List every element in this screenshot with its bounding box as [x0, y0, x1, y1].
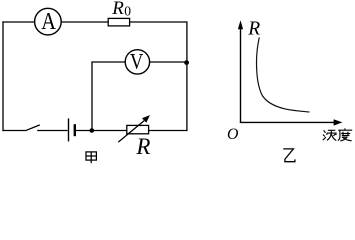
- resistor R0 body: [108, 18, 129, 26]
- voltmeter V: [125, 50, 149, 74]
- label jia (甲): [86, 152, 96, 163]
- wire top: left edge to ammeter: [2, 21, 34, 23]
- graph y-axis: [238, 20, 243, 122]
- label R0: [111, 0, 131, 19]
- junction node on right wire: [184, 60, 189, 65]
- wire voltmeter to right wire: [150, 61, 187, 63]
- rheostat slider arrow: [118, 115, 150, 142]
- switch S (open blade): [25, 125, 39, 131]
- ammeter A: [35, 8, 62, 35]
- wire battery to rheostat: [76, 130, 127, 132]
- svg-text:A: A: [41, 8, 56, 35]
- label yi (乙): [283, 149, 295, 162]
- wire top: R0 to top-right corner: [130, 21, 188, 23]
- svg-text:R: R: [135, 134, 150, 159]
- wire rheostat to bottom-right corner: [149, 130, 188, 132]
- wire bottom: left edge to switch: [2, 130, 25, 132]
- wire right vertical: [186, 21, 188, 131]
- graph x-axis: [240, 119, 343, 125]
- junction node at voltmeter tap: [90, 128, 95, 133]
- graph curve R vs concentration: [257, 37, 310, 112]
- label nongdu (浓度): [323, 128, 352, 141]
- wire voltmeter branch: down-left leg: [92, 62, 125, 131]
- rheostat R body: [127, 125, 149, 133]
- wire switch contact to battery: [37, 130, 67, 132]
- svg-text:R: R: [111, 0, 124, 19]
- svg-text:0: 0: [124, 4, 131, 19]
- svg-text:V: V: [130, 50, 144, 74]
- svg-text:O: O: [227, 126, 239, 143]
- svg-text:R: R: [247, 19, 260, 40]
- battery cell: [69, 118, 77, 141]
- wire top: ammeter to R0: [61, 21, 108, 23]
- wire left vertical: [2, 21, 4, 131]
